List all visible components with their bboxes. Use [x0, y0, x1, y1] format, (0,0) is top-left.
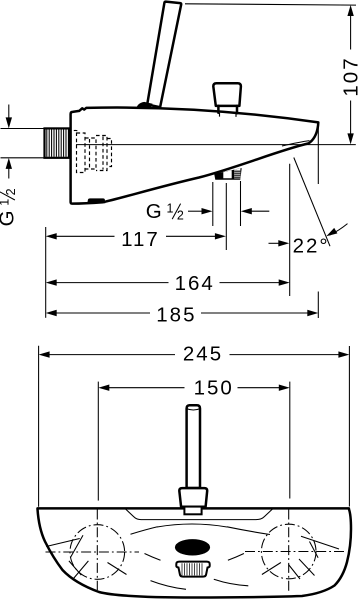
hatched outlet (bottom view) — [176, 562, 209, 577]
dimension G 1/2 outlet: left arrow — [188, 208, 213, 214]
inlet axis centerline — [76, 144, 356, 146]
outlet thread hatch — [234, 171, 240, 177]
spout tip extension line (broken) — [317, 127, 319, 319]
dome arc — [157, 524, 227, 527]
svg-text:107: 107 — [340, 56, 360, 96]
knob hidden stem (dashed) — [220, 113, 237, 119]
lever foot — [184, 507, 201, 515]
dimension G 1/2 left: lower arrow — [6, 158, 12, 179]
right circle centerlines (dash-dot) — [245, 510, 346, 592]
svg-text:185: 185 — [156, 303, 196, 326]
svg-text:1: 1 — [0, 199, 11, 206]
dimension G 1/2 outlet: right arrow — [241, 208, 269, 214]
left wall extension line — [45, 227, 47, 318]
left upper swoosh — [131, 527, 158, 535]
right inner swoosh — [228, 554, 244, 561]
svg-text:22°: 22° — [293, 234, 330, 257]
label G 1/2 outlet — [146, 200, 184, 223]
left wing lines — [46, 535, 126, 578]
outlet notch (white) — [223, 170, 231, 178]
dimension 117 — [46, 233, 226, 239]
lever pivot wedge — [136, 102, 153, 111]
angle vertical reference line — [289, 164, 291, 296]
svg-text:164: 164 — [175, 272, 215, 295]
dimension 245 — [39, 351, 350, 357]
diverter knob (side view) — [213, 83, 241, 106]
drain ellipse (black) — [175, 539, 210, 555]
lever base trapezoid — [179, 488, 207, 507]
dimension G 1/2 left: upper arrow — [6, 105, 12, 129]
outlet extension lines — [213, 181, 241, 226]
body outline (side view) — [71, 108, 319, 204]
svg-text:1: 1 — [167, 202, 174, 216]
knob neck — [218, 106, 237, 113]
foot pad — [87, 198, 105, 203]
extension line 245 right — [348, 346, 350, 507]
svg-text:2: 2 — [4, 188, 18, 195]
hull outline (bottom view) — [38, 508, 352, 597]
dimension 107: line and arrows — [347, 5, 353, 144]
side view: inlet thread top extension line — [1, 128, 45, 130]
hidden check-valve internals (dashed) — [74, 130, 112, 172]
lever bar (top view) — [187, 405, 200, 488]
shower outlet collar (underside) — [214, 168, 242, 180]
left lower inner arc — [151, 581, 187, 590]
lever handle (side view) — [147, 2, 181, 108]
svg-text:2: 2 — [177, 208, 184, 222]
svg-text:117: 117 — [121, 228, 160, 251]
dimension 164 — [46, 279, 290, 285]
left inner swoosh — [145, 554, 161, 561]
escutcheon notch edge — [125, 509, 273, 520]
inlet thread (G 1/2) — [45, 128, 70, 157]
svg-text:G: G — [146, 200, 164, 223]
angle slanted line (22 deg) — [294, 158, 330, 247]
left connection circle (dashed) — [70, 525, 125, 580]
right wing lines — [262, 536, 339, 579]
right connection circle (dashed) — [261, 524, 316, 579]
dimension 22deg: left arrow — [269, 240, 290, 246]
extension line 245 left — [38, 346, 40, 507]
left circle centerlines (dash-dot) — [46, 510, 140, 591]
dimension 22deg: right arrow — [326, 224, 347, 237]
extension line 150 left — [97, 382, 99, 501]
side view: extension line top (from lever tip) — [185, 4, 356, 5]
right upper swoosh — [227, 527, 270, 535]
extension line 150 right — [289, 382, 291, 499]
spout inner lip line — [282, 141, 310, 146]
label G 1/2 left (rotated) — [0, 188, 19, 226]
outlet centerline extension — [225, 183, 227, 250]
svg-text:G: G — [0, 208, 19, 226]
lever bar top rim — [187, 409, 200, 410]
dimension 150 — [98, 385, 289, 391]
svg-text:245: 245 — [183, 342, 223, 365]
svg-text:150: 150 — [194, 376, 234, 399]
side view: inlet thread bottom extension line — [1, 157, 45, 159]
outlet thread window — [234, 168, 240, 178]
dimension 185 — [46, 310, 319, 316]
right lower inner arc — [214, 579, 249, 586]
